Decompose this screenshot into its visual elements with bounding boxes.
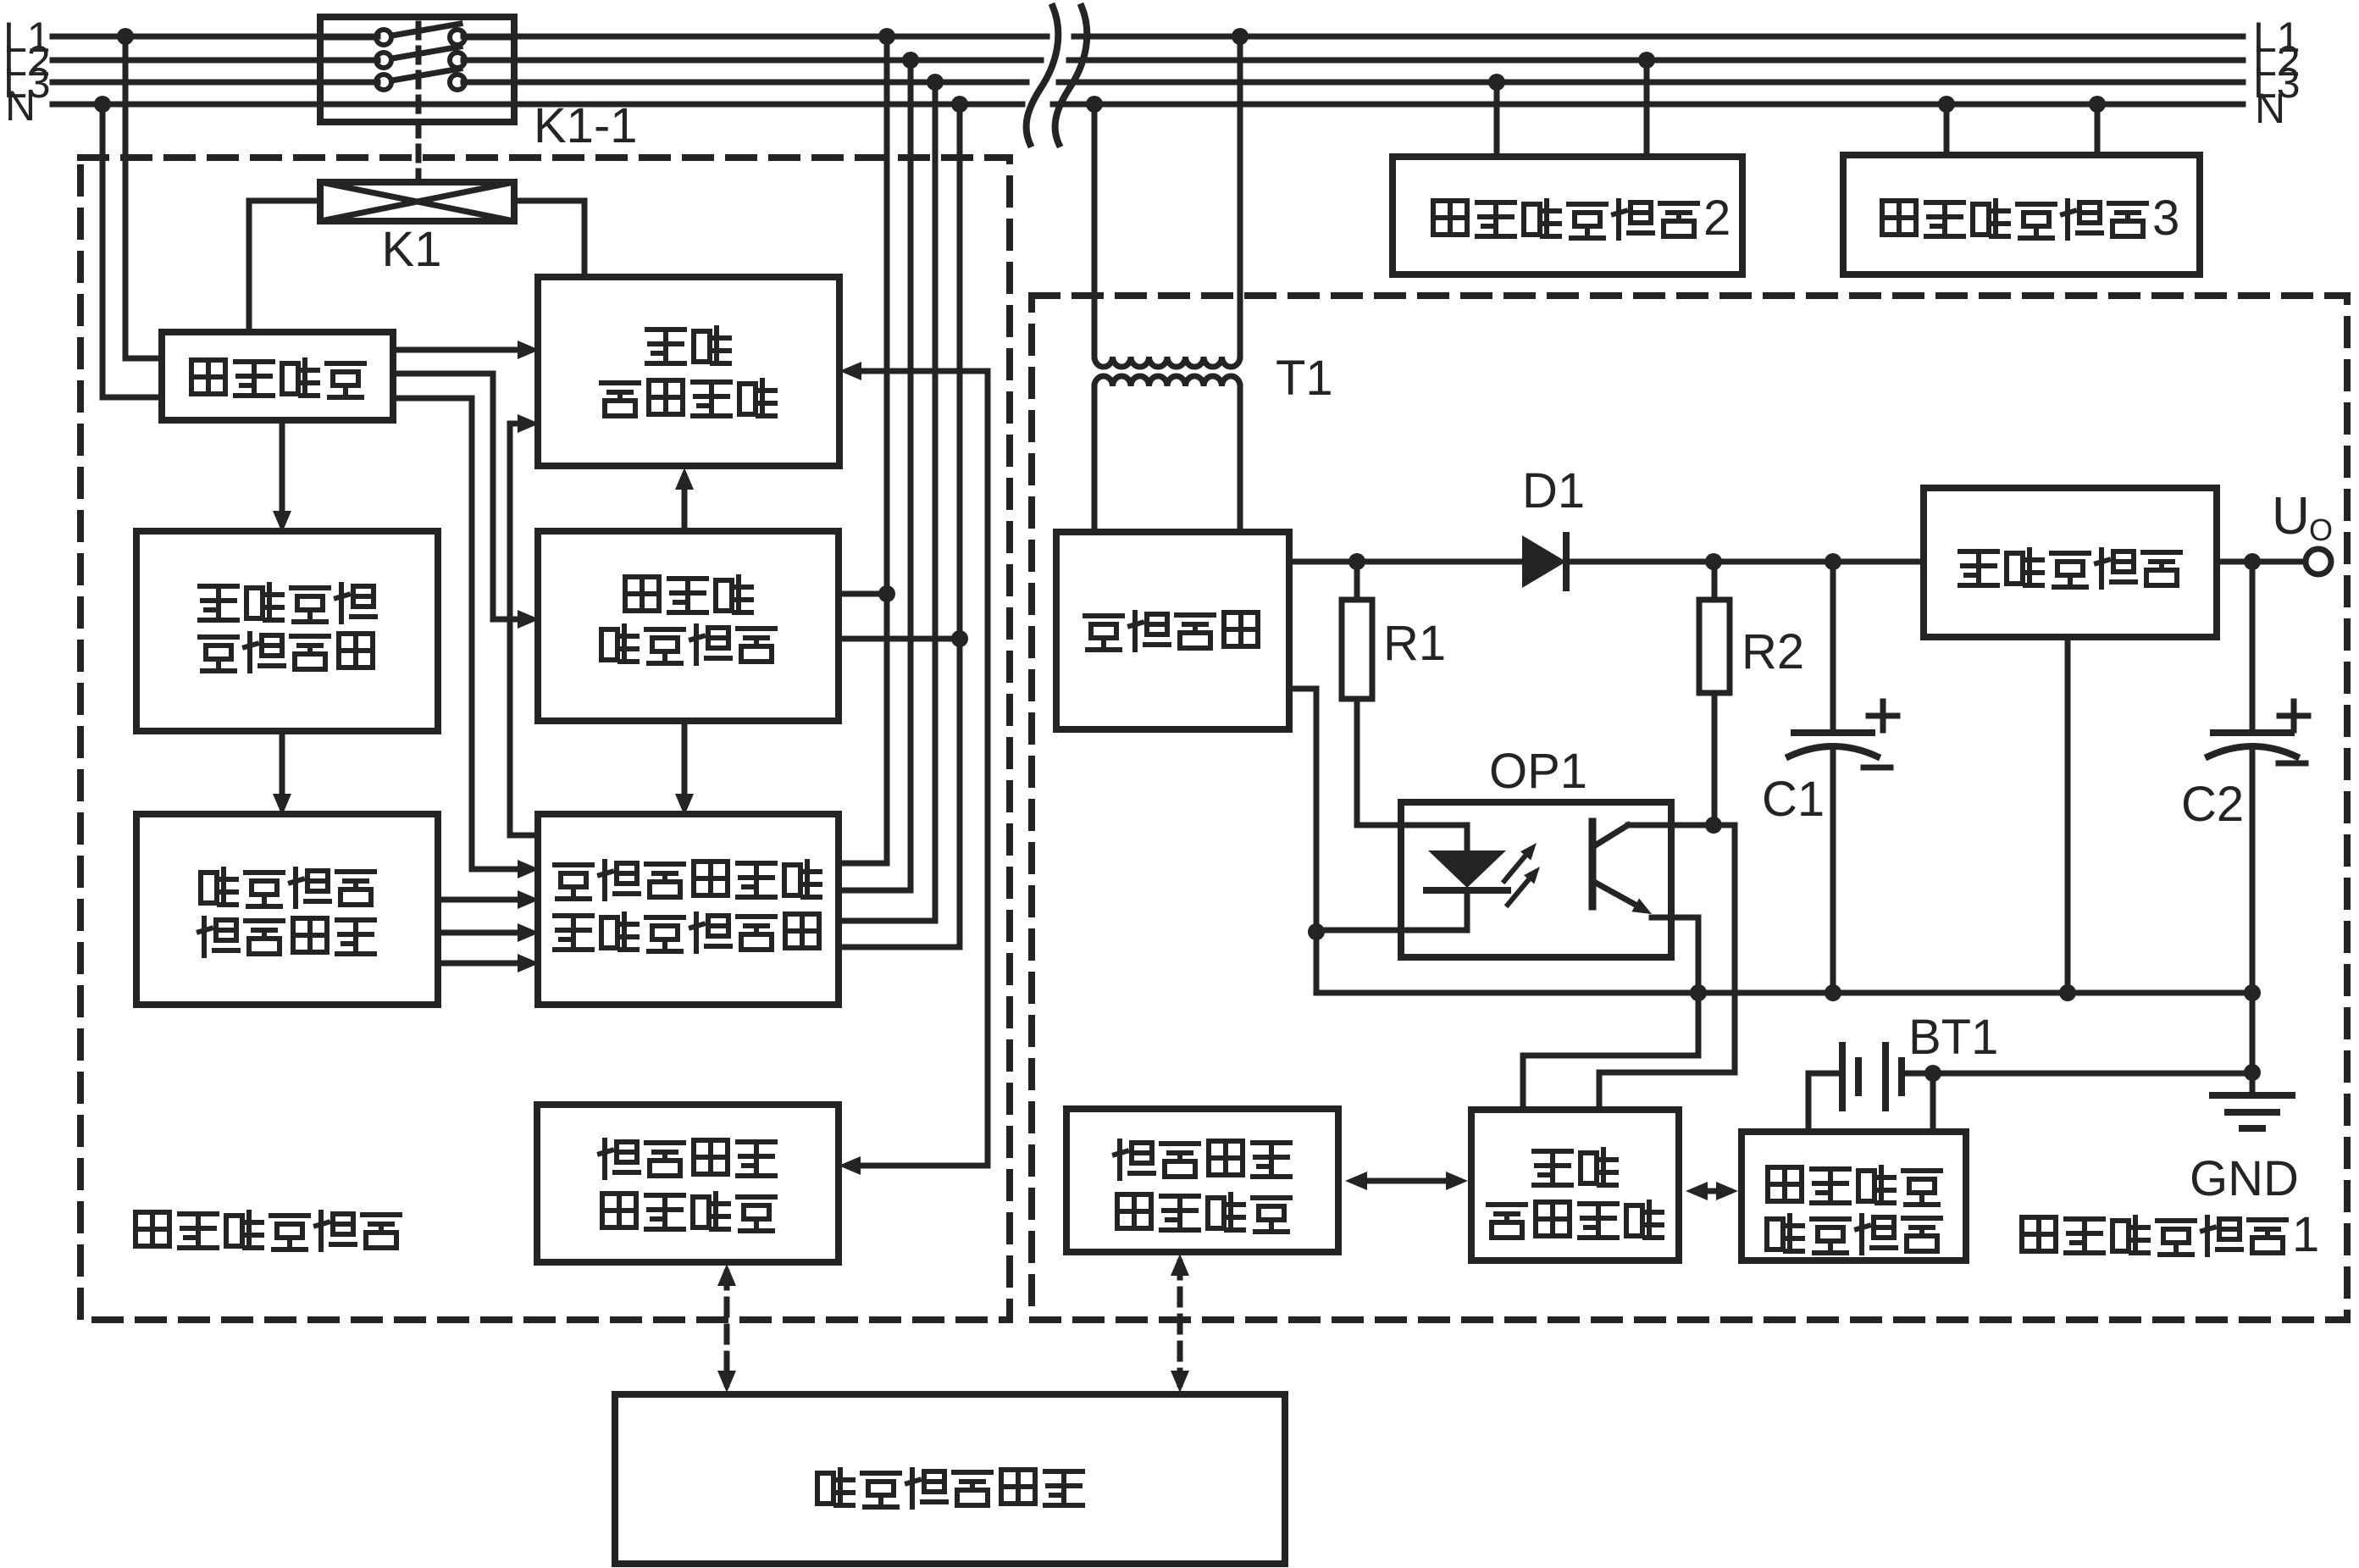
wire switch-over output to L1 sense line bbox=[839, 861, 887, 867]
node GND junction bbox=[2244, 1064, 2261, 1081]
wire K1 coil to head-end MCU bbox=[514, 201, 584, 277]
block 直流电压转换电路 (DC voltage conversion circuit) bbox=[136, 531, 438, 731]
wire N tap to power-supply circuit bbox=[102, 104, 162, 397]
svg-text:T1: T1 bbox=[1276, 351, 1333, 406]
wire battery to management circuit (left) bbox=[1808, 1073, 1842, 1132]
node L3 tap to sense line bbox=[927, 74, 944, 91]
block 整流桥堆 (rectifier bridge) bbox=[1056, 532, 1289, 729]
block 末端微控制器 (terminal microcontroller) bbox=[1471, 1110, 1679, 1260]
node R1 top junction bbox=[1348, 553, 1365, 570]
wire D1 cathode rail to regulator bbox=[1566, 559, 1924, 565]
node L1 tap to T1 bbox=[1232, 28, 1249, 45]
node N tap to sense line bbox=[951, 96, 968, 113]
node C2 top junction bbox=[2244, 553, 2261, 570]
label 首端监测装置 (head-end monitoring device) bbox=[136, 1212, 169, 1246]
resistor R2 bbox=[1712, 562, 1718, 600]
wire N bus left segment bbox=[53, 102, 1022, 108]
wire L1 bus right segment bbox=[1074, 34, 2243, 40]
label 末端监测装置1 (terminal monitoring device 1) bbox=[2022, 1217, 2056, 1251]
switch K1-1 contact row y=97 bbox=[320, 80, 376, 86]
svg-text:K1-1: K1-1 bbox=[534, 98, 638, 153]
svg-text:C2: C2 bbox=[2181, 777, 2244, 832]
OP1 phototransistor bbox=[1589, 822, 1597, 906]
wire detection circuit up to MCU (arrow) bbox=[682, 485, 688, 531]
wire L3 sense vertical bbox=[933, 82, 939, 921]
ground symbol GND bbox=[2250, 1072, 2256, 1094]
node N tap (device 3 right) bbox=[2089, 96, 2106, 113]
wire L1 bus middle segment bbox=[463, 34, 1047, 40]
block 有无电检测电路 (power presence detection circuit) bbox=[538, 531, 839, 721]
wire power-supply to detection circuit (arrow) bbox=[393, 374, 522, 619]
block 末端电池管理电路 (terminal battery management circuit) bbox=[1742, 1132, 1966, 1260]
wire DC conversion down to constant-current output (arrow) bbox=[280, 731, 285, 796]
svg-text:BT1: BT1 bbox=[1908, 1010, 1998, 1065]
node R2 bottom / collector junction bbox=[1705, 817, 1722, 834]
block 云平台服务器 (cloud platform server) bbox=[615, 1394, 1285, 1564]
capacitor C1 bbox=[1830, 562, 1836, 733]
wire L3 bus middle segment bbox=[463, 80, 1027, 86]
wire L2 bus right segment bbox=[1069, 58, 2243, 64]
node C1 top junction bbox=[1825, 553, 1841, 570]
wire L1 sense vertical bbox=[884, 36, 890, 863]
wire L2 bus middle segment bbox=[463, 58, 1041, 64]
svg-text:D1: D1 bbox=[1522, 463, 1585, 518]
OP1 LED bbox=[1465, 825, 1470, 850]
wire regulator output to Uo bbox=[2217, 559, 2306, 565]
wire L3 drop to terminal device 2 bbox=[1494, 82, 1500, 157]
node detection to N sense junction bbox=[951, 630, 968, 647]
wire OP1 LED cathode return bbox=[1315, 890, 1467, 930]
block 末端监测装置3 (terminal monitoring device 3) bbox=[1843, 155, 2200, 274]
wire L2 drop to terminal device 2 bbox=[1644, 60, 1650, 157]
wire L1 bus left segment bbox=[53, 34, 378, 40]
block 首端无线通信电路 (head-end wireless communication circuit) bbox=[537, 1105, 839, 1262]
node L1 tap (head-end) bbox=[117, 28, 134, 45]
svg-text:U: U bbox=[2272, 487, 2310, 546]
block 末端无线通信电路 (terminal wireless communication circuit) bbox=[1066, 1109, 1338, 1252]
wire terminal comm to terminal MCU (double arrow) bbox=[1362, 1178, 1450, 1184]
block 末端监测装置2 (terminal monitoring device 2) bbox=[1393, 157, 1742, 274]
wire OP1 collector to R2 node and terminal MCU bbox=[1599, 825, 1735, 1110]
wire N drop to terminal device 3 (left) bbox=[1944, 104, 1950, 155]
node battery junction bbox=[1924, 1065, 1941, 1082]
node C2 bottom / ground rail junction bbox=[2244, 984, 2261, 1001]
node emitter to ground rail junction bbox=[1690, 984, 1707, 1001]
block 首端微控制器 (head-end microcontroller) bbox=[538, 277, 839, 466]
node L3 tap (device 2) bbox=[1488, 74, 1505, 91]
svg-text:OP1: OP1 bbox=[1489, 744, 1587, 799]
switch K1-1 contact row y=44 bbox=[320, 35, 376, 41]
dashed link head-end comm to cloud (double arrow) bbox=[724, 1272, 730, 1384]
transformer T1 primary winding bbox=[1092, 104, 1098, 357]
C2 polarity marks bbox=[2279, 713, 2308, 719]
wire detection tap to L1 sense line bbox=[839, 591, 887, 597]
dashed link terminal comm to cloud (double arrow) bbox=[1177, 1262, 1183, 1384]
node L1 tap to sense line bbox=[878, 28, 895, 45]
svg-text:R2: R2 bbox=[1742, 624, 1804, 679]
OP1 LED light arrows bbox=[1504, 850, 1530, 881]
optocoupler OP1 package bbox=[1401, 802, 1671, 957]
wire rectifier negative output bbox=[1289, 689, 1316, 993]
wire L3 bus left segment bbox=[53, 80, 378, 86]
wire L2 sense vertical bbox=[908, 60, 914, 890]
node N tap (device 3 left) bbox=[1938, 96, 1955, 113]
wire ground rail bbox=[1316, 990, 2252, 996]
svg-text:2: 2 bbox=[1703, 191, 1730, 246]
wire L2 bus left segment bbox=[53, 58, 378, 64]
svg-text:K1: K1 bbox=[382, 222, 442, 277]
svg-text:N: N bbox=[2255, 85, 2285, 132]
wire switch-over output to L3 sense line bbox=[839, 918, 935, 924]
wire detection tap to N sense line bbox=[839, 636, 960, 642]
transformer T1 secondary winding bbox=[1094, 376, 1240, 386]
wire N sense vertical bbox=[957, 104, 963, 947]
svg-text:3: 3 bbox=[2152, 191, 2179, 246]
switch K1-1 contact row y=71 bbox=[320, 58, 376, 64]
wire switch-over output to N sense line bbox=[839, 945, 960, 950]
node R2 top junction bbox=[1705, 553, 1722, 570]
node L2 tap (device 2) bbox=[1638, 52, 1655, 69]
wire rectifier positive output rail bbox=[1289, 559, 1520, 565]
wire constant-current output to switch-over (arrow 3) bbox=[438, 961, 522, 967]
terminal Uo bbox=[2306, 549, 2331, 574]
block 恒流直流输出电路 (constant-current DC output circuit) bbox=[136, 814, 438, 1005]
dashed enclosure: terminal monitoring device 1 bbox=[1032, 296, 2347, 1320]
diode D1 bbox=[1522, 535, 1566, 588]
wire MCU to wireless comm link (double arrow) bbox=[856, 371, 988, 1166]
wire switch-over circuit feedback to MCU (arrow) bbox=[510, 424, 538, 835]
relay coil K1 bbox=[320, 182, 514, 221]
block 电源电路 (power supply circuit) bbox=[162, 332, 393, 420]
line break symbol on bus bbox=[1027, 7, 1059, 144]
wire K1 coil to power-supply box bbox=[249, 201, 320, 332]
wire regulator ground lead bbox=[2065, 637, 2071, 993]
svg-text:R1: R1 bbox=[1383, 616, 1446, 671]
wire R1 to OP1 LED anode bbox=[1357, 823, 1467, 828]
svg-text:C1: C1 bbox=[1762, 772, 1825, 827]
block 有无电切换及无电监测电路 (power switch-over and outage monitoring circuit) bbox=[538, 814, 839, 1005]
node LED return junction bbox=[1308, 923, 1325, 940]
switch K1-1 box bbox=[320, 17, 514, 122]
block 三端稳压器 (three-terminal regulator) bbox=[1924, 488, 2217, 637]
node regulator ground junction bbox=[2059, 984, 2076, 1001]
battery BT1 bbox=[1839, 1045, 1846, 1108]
wire battery positive lead bbox=[1902, 1071, 1933, 1077]
node L2 tap to sense line bbox=[902, 52, 919, 69]
wire constant-current output to switch-over (arrow 1) bbox=[438, 897, 522, 903]
C1 polarity marks bbox=[1869, 713, 1897, 719]
wire terminal MCU to battery management (double arrow) bbox=[1701, 1188, 1723, 1194]
svg-text:O: O bbox=[2309, 513, 2333, 547]
svg-text:1: 1 bbox=[2292, 1207, 2319, 1262]
node N tap to T1 bbox=[1086, 96, 1103, 113]
dashed enclosure: head-end monitoring device bbox=[80, 158, 1010, 1320]
resistor R1 bbox=[1354, 562, 1360, 600]
svg-text:GND: GND bbox=[2190, 1151, 2299, 1206]
capacitor C2 bbox=[2250, 562, 2256, 733]
node N tap (head-end) bbox=[94, 96, 111, 113]
wire constant-current output to switch-over (arrow 2) bbox=[438, 930, 522, 936]
wire OP1 emitter to ground rail and terminal MCU bbox=[1523, 917, 1698, 1110]
wire power-supply down to DC conversion (arrow) bbox=[280, 420, 285, 513]
wire battery to GND bbox=[1933, 1071, 2252, 1077]
node detection to L1 sense junction bbox=[878, 585, 895, 602]
wire battery junction to management circuit bbox=[1930, 1073, 1936, 1132]
wire power-supply to MCU (arrow) bbox=[393, 347, 522, 353]
wire L1 tap to power-supply circuit bbox=[125, 36, 162, 358]
node C1 bottom junction bbox=[1825, 984, 1841, 1001]
wire switch-over output to L2 sense line bbox=[839, 888, 911, 894]
wire power-supply to switch-over circuit (arrow) bbox=[393, 398, 522, 869]
svg-text:N: N bbox=[5, 82, 36, 130]
wire N bus right segment bbox=[1053, 102, 2243, 108]
wire N drop to terminal device 3 (right) bbox=[2095, 104, 2101, 155]
switch K1-1 mechanical dashed link bbox=[416, 24, 422, 182]
wire detection circuit down to switch-over circuit (arrow) bbox=[682, 721, 688, 796]
wire L3 bus right segment bbox=[1059, 80, 2243, 86]
